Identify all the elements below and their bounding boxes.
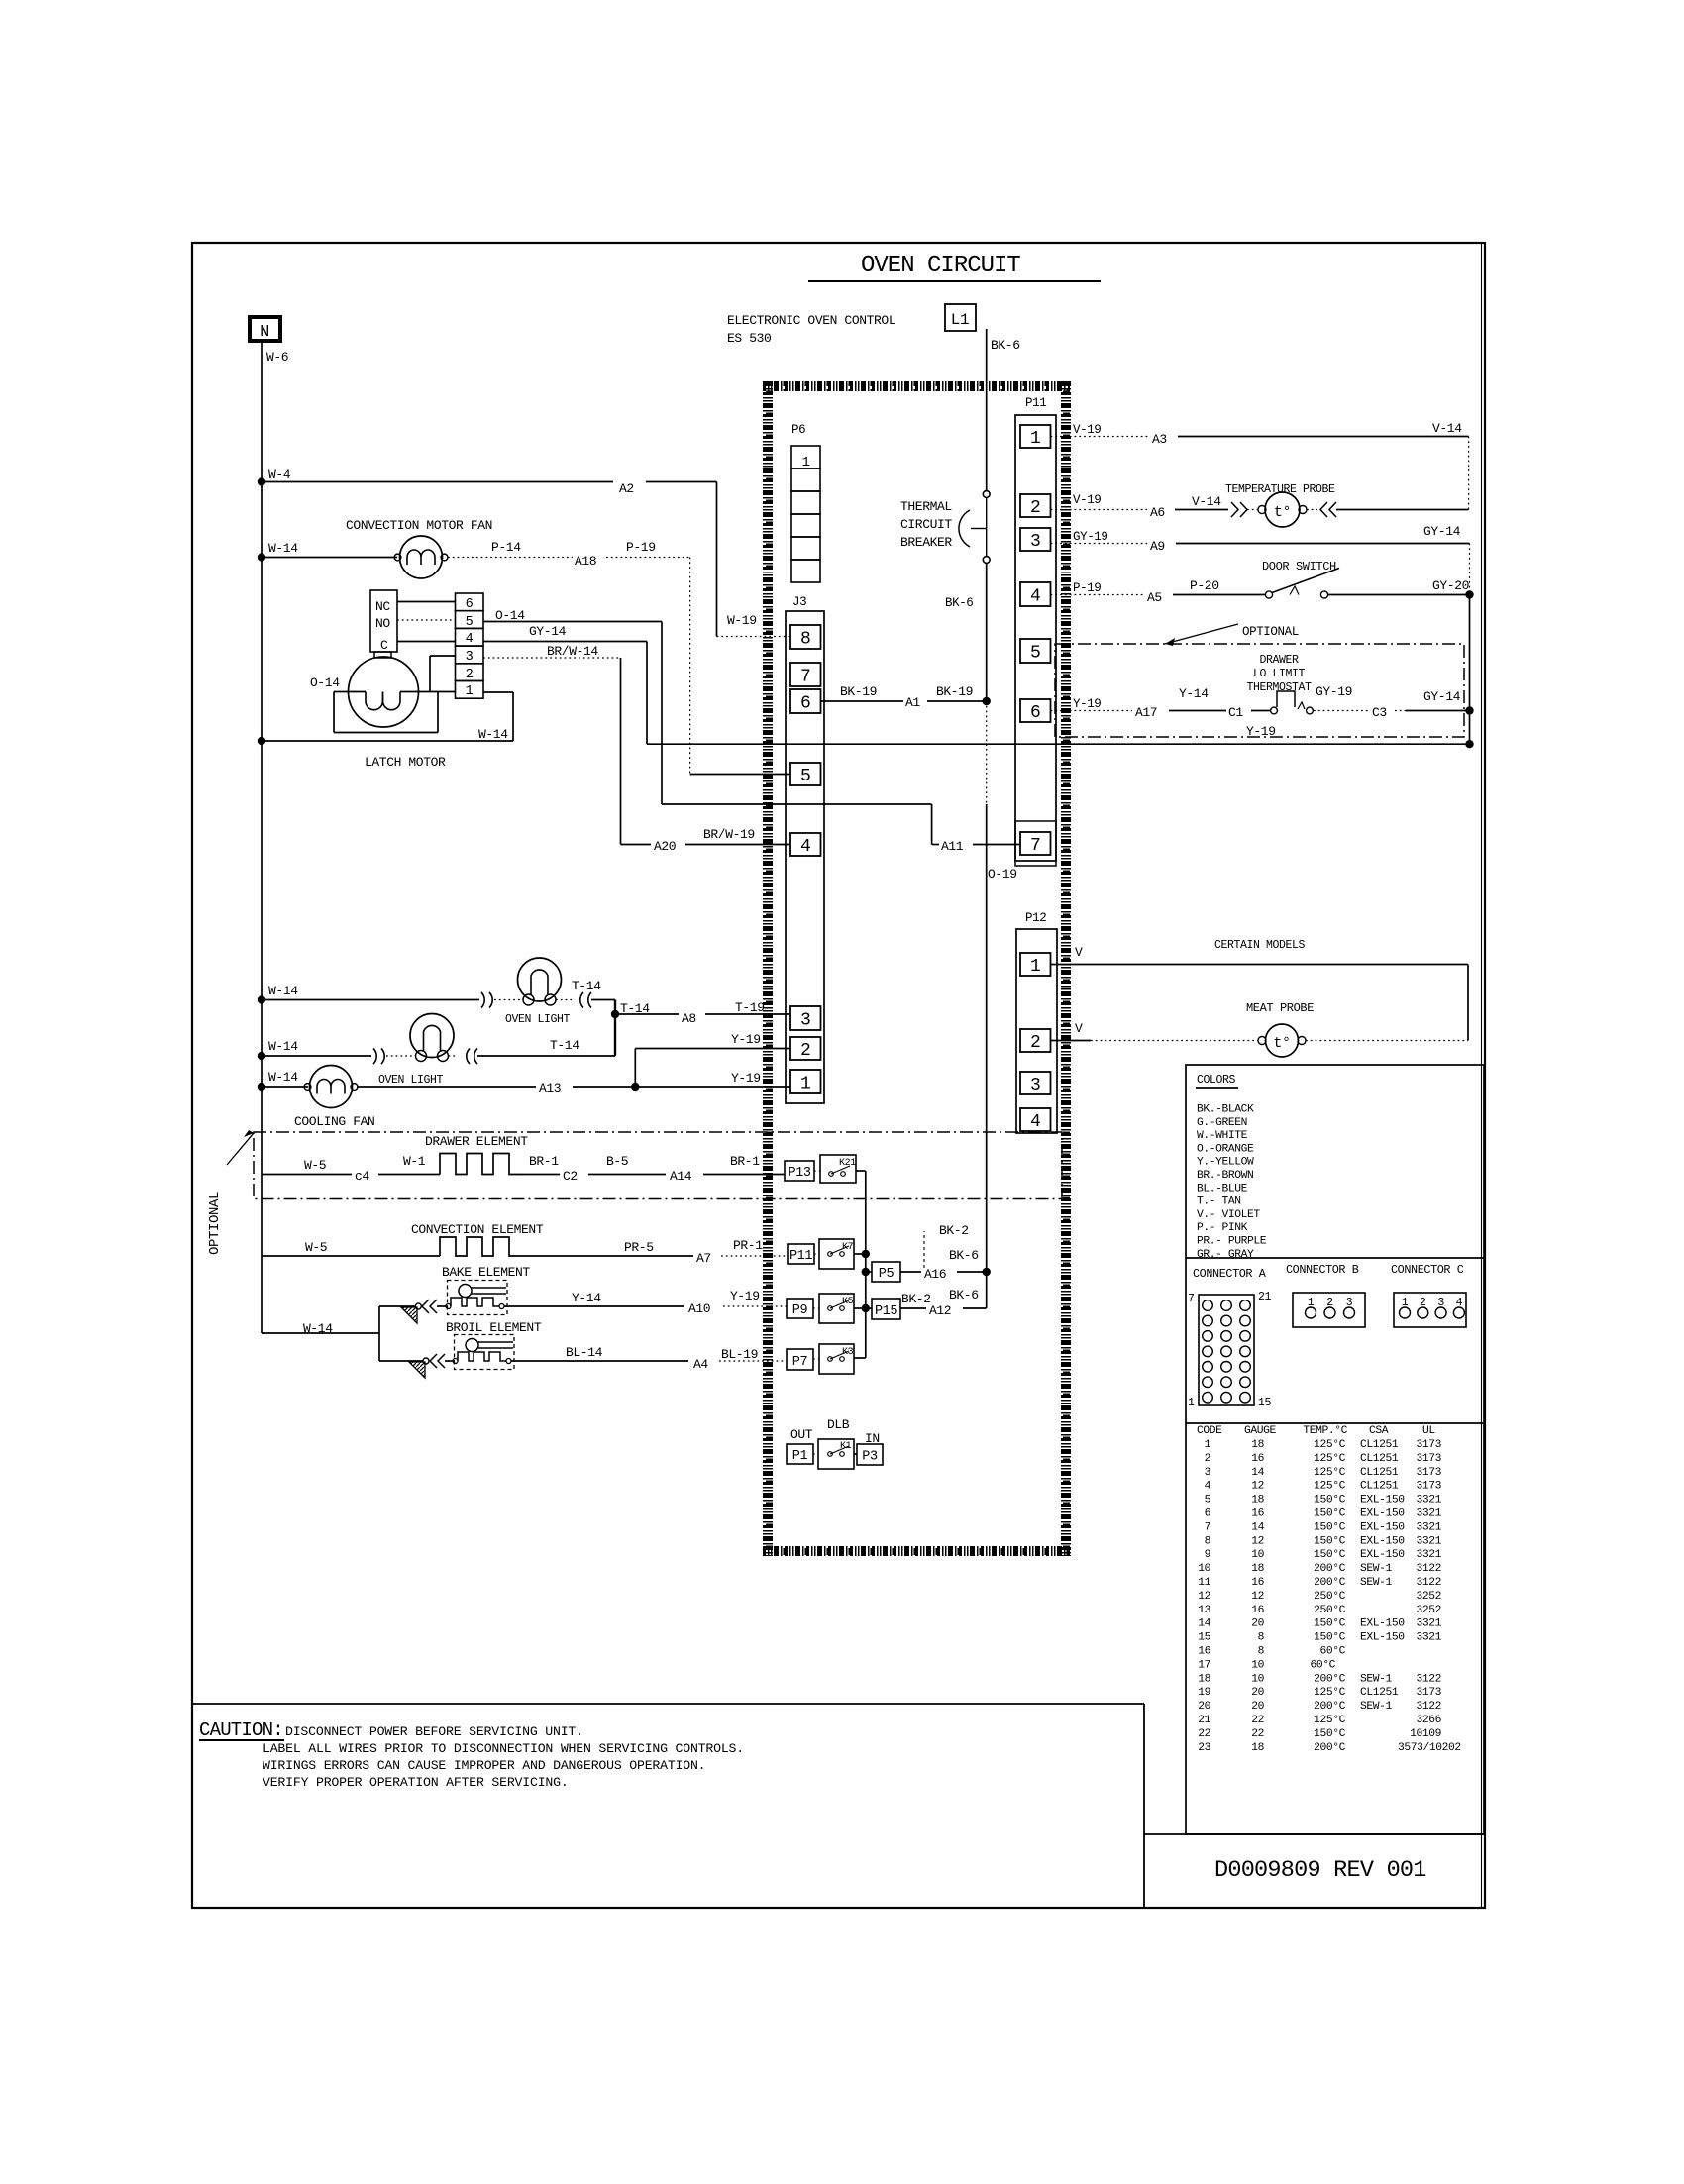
wire NO to cell 5 dotted — [397, 619, 456, 621]
svg-text:DRAWER: DRAWER — [1259, 654, 1299, 667]
svg-text:Y-14: Y-14 — [1179, 686, 1209, 701]
P11 pin 1 — [1020, 425, 1051, 448]
P12 pin 2 — [1020, 1029, 1051, 1052]
svg-text:12: 12 — [1251, 1535, 1264, 1547]
J3 pin 8 — [790, 625, 821, 649]
svg-text:10: 10 — [1198, 1563, 1210, 1575]
svg-text:PR-1: PR-1 — [733, 1238, 763, 1253]
svg-text:T.- TAN: T.- TAN — [1197, 1196, 1241, 1208]
wire NC to cell 6 — [397, 601, 456, 603]
door switch — [1265, 591, 1272, 598]
svg-text:3: 3 — [800, 1010, 810, 1030]
svg-text:7: 7 — [1205, 1521, 1210, 1533]
oven control board hatched border right — [1061, 381, 1071, 1556]
svg-text:CODE: CODE — [1197, 1425, 1222, 1437]
svg-text:Y.-YELLOW: Y.-YELLOW — [1197, 1157, 1254, 1169]
latch motor inner winding — [366, 692, 400, 710]
P11 pin 4 — [1020, 582, 1051, 606]
svg-text:TEMP.°C: TEMP.°C — [1303, 1425, 1347, 1437]
wire BR/W-14 dotted from cell 3 — [483, 657, 621, 659]
svg-text:K3: K3 — [842, 1347, 854, 1358]
svg-text:BK-6: BK-6 — [945, 596, 973, 610]
oven control board hatched border bottom — [763, 1546, 1070, 1556]
svg-text:LO LIMIT: LO LIMIT — [1253, 668, 1306, 680]
svg-text:A11: A11 — [941, 839, 964, 854]
svg-text:6: 6 — [1205, 1508, 1211, 1520]
svg-text:3173: 3173 — [1416, 1687, 1441, 1699]
svg-text:SEW-1: SEW-1 — [1360, 1577, 1393, 1589]
svg-text:MEAT PROBE: MEAT PROBE — [1246, 1001, 1314, 1015]
svg-text:V-14: V-14 — [1192, 494, 1221, 509]
svg-text:c4: c4 — [355, 1169, 369, 1184]
svg-text:CONVECTION ELEMENT: CONVECTION ELEMENT — [411, 1222, 544, 1237]
svg-text:EXL-150: EXL-150 — [1360, 1618, 1405, 1630]
svg-text:C3: C3 — [1372, 705, 1387, 720]
relay P1 box — [787, 1444, 813, 1464]
connector J3 outer box — [786, 611, 824, 1103]
svg-text:CL1251: CL1251 — [1360, 1481, 1399, 1493]
node N (neutral) box — [250, 317, 280, 341]
svg-text:WIRINGS ERRORS CAN CAUSE IMPRO: WIRINGS ERRORS CAN CAUSE IMPROPER AND DA… — [263, 1758, 705, 1773]
svg-text:EXL-150: EXL-150 — [1360, 1508, 1405, 1520]
svg-text:T-19: T-19 — [735, 1000, 765, 1015]
svg-text:O-14: O-14 — [495, 608, 525, 623]
wire K7 to bus — [854, 1253, 866, 1255]
svg-text:W-5: W-5 — [305, 1240, 327, 1255]
svg-text:BK-6: BK-6 — [991, 338, 1020, 353]
svg-text:W-14: W-14 — [268, 541, 298, 556]
wire to oven light 2 — [262, 1055, 371, 1057]
svg-text:V-19: V-19 — [1073, 493, 1101, 507]
P11 pin 7 inner frame — [1015, 821, 1056, 866]
svg-text:A16: A16 — [924, 1267, 946, 1282]
svg-text:8: 8 — [1258, 1632, 1265, 1644]
latch relay contact box NC NO C — [370, 590, 397, 652]
svg-text:18: 18 — [1251, 1495, 1264, 1507]
latch connector 6-pin column — [456, 593, 484, 611]
svg-text:V: V — [1075, 945, 1083, 960]
svg-text:P12: P12 — [1025, 911, 1046, 925]
svg-text:P13: P13 — [788, 1166, 810, 1181]
svg-text:150°C: 150°C — [1314, 1549, 1346, 1561]
svg-text:K5: K5 — [842, 1297, 854, 1307]
svg-text:K1: K1 — [840, 1441, 852, 1452]
svg-text:3: 3 — [1346, 1297, 1353, 1309]
wire K21 to bus — [856, 1170, 866, 1172]
wire BK-6 from L1 down to thermal breaker — [986, 329, 988, 491]
caution box — [192, 1703, 1144, 1705]
svg-text:A14: A14 — [670, 1169, 692, 1184]
meat probe — [1266, 1024, 1299, 1057]
svg-text:GY-20: GY-20 — [1432, 578, 1469, 593]
svg-text:3321: 3321 — [1416, 1495, 1441, 1507]
wire Y-14 A10 Y-19 to P9 — [504, 1305, 684, 1307]
svg-text:THERMAL: THERMAL — [900, 499, 952, 514]
sheet border frame — [192, 243, 1485, 1908]
wire left neutral rail — [261, 341, 263, 1333]
svg-text:TEMPERATURE PROBE: TEMPERATURE PROBE — [1225, 483, 1335, 496]
svg-text:22: 22 — [1251, 1715, 1264, 1726]
svg-text:OUT: OUT — [790, 1427, 813, 1442]
svg-text:P15: P15 — [875, 1304, 897, 1319]
svg-text:125°C: 125°C — [1314, 1481, 1346, 1493]
svg-text:W-5: W-5 — [304, 1158, 326, 1173]
svg-text:BR/W-14: BR/W-14 — [547, 644, 598, 659]
node L1 box — [945, 304, 976, 331]
connector P6 column — [791, 446, 820, 468]
svg-text:10109: 10109 — [1410, 1728, 1441, 1740]
svg-text:BR/W-19: BR/W-19 — [703, 827, 755, 842]
svg-text:7: 7 — [1030, 836, 1040, 856]
svg-text:3: 3 — [1437, 1297, 1444, 1309]
svg-text:9: 9 — [1205, 1549, 1210, 1561]
connector C pin row — [1394, 1293, 1466, 1327]
title underline — [808, 280, 1101, 282]
relay K5 box — [819, 1294, 854, 1323]
svg-text:OPTIONAL: OPTIONAL — [207, 1192, 223, 1255]
P12 pin 1 — [1020, 953, 1051, 976]
svg-text:6: 6 — [800, 693, 810, 713]
svg-text:3: 3 — [1205, 1467, 1211, 1479]
latch motor lead wires — [334, 691, 366, 693]
svg-text:3: 3 — [1030, 532, 1040, 552]
svg-text:11: 11 — [1198, 1577, 1210, 1589]
svg-text:G.-GREEN: G.-GREEN — [1197, 1117, 1247, 1129]
connector P11 outer box — [1015, 415, 1056, 861]
wire P-19 drop to J3 pin 5 — [689, 558, 691, 775]
svg-text:CONNECTOR A: CONNECTOR A — [1193, 1267, 1267, 1281]
bake chassis triangle — [401, 1307, 417, 1323]
svg-text:W.-WHITE: W.-WHITE — [1197, 1130, 1248, 1142]
svg-text:A8: A8 — [682, 1011, 696, 1026]
svg-text:3173: 3173 — [1416, 1439, 1441, 1451]
connector P12 outer box — [1016, 929, 1057, 1133]
svg-text:2: 2 — [1205, 1453, 1210, 1465]
connector B pin row — [1293, 1293, 1365, 1327]
svg-text:O.-ORANGE: O.-ORANGE — [1197, 1143, 1254, 1155]
svg-text:3252: 3252 — [1416, 1591, 1441, 1603]
svg-text:THERMOSTAT: THERMOSTAT — [1246, 681, 1312, 694]
svg-text:3321: 3321 — [1416, 1632, 1441, 1644]
wire K5 to bus — [854, 1307, 866, 1309]
svg-text:2: 2 — [1420, 1297, 1426, 1309]
svg-text:22: 22 — [1251, 1728, 1264, 1740]
svg-text:NC: NC — [375, 599, 390, 614]
wire from oven light 1 to junction — [556, 999, 572, 1001]
svg-text:3321: 3321 — [1416, 1549, 1441, 1561]
svg-text:3321: 3321 — [1416, 1508, 1441, 1520]
svg-text:Y-14: Y-14 — [572, 1291, 601, 1305]
svg-text:125°C: 125°C — [1314, 1467, 1346, 1479]
svg-text:3252: 3252 — [1416, 1605, 1441, 1616]
svg-text:150°C: 150°C — [1314, 1728, 1346, 1740]
sheet border right double line — [1481, 243, 1483, 1908]
svg-text:BK-6: BK-6 — [949, 1288, 979, 1302]
wire drop to A8 row — [614, 1000, 616, 1057]
svg-text:P6: P6 — [791, 423, 805, 437]
svg-text:Y-19: Y-19 — [1073, 697, 1101, 711]
svg-text:EXL-150: EXL-150 — [1360, 1495, 1405, 1507]
svg-text:60°C: 60°C — [1319, 1646, 1345, 1658]
J3 pin 4 — [790, 833, 821, 856]
svg-text:DOOR SWITCH: DOOR SWITCH — [1262, 560, 1336, 573]
svg-text:P5: P5 — [879, 1267, 895, 1282]
svg-text:UL: UL — [1422, 1425, 1435, 1437]
svg-text:Y-19: Y-19 — [731, 1071, 761, 1086]
svg-text:T-14: T-14 — [550, 1038, 579, 1053]
wire oven light 2 to junction drop — [449, 1055, 459, 1057]
svg-text:B-5: B-5 — [606, 1154, 628, 1169]
svg-text:A4: A4 — [693, 1357, 708, 1372]
relay P5 box — [862, 1268, 870, 1276]
svg-text:W-14: W-14 — [268, 1039, 298, 1054]
svg-text:GAUGE: GAUGE — [1244, 1425, 1277, 1437]
svg-text:3173: 3173 — [1416, 1481, 1441, 1493]
svg-text:P.- PINK: P.- PINK — [1197, 1222, 1248, 1234]
svg-text:PR.- PURPLE: PR.- PURPLE — [1197, 1236, 1267, 1248]
P11 pin 6 — [1020, 699, 1051, 722]
svg-text:t°: t° — [1274, 504, 1291, 521]
svg-text:1: 1 — [466, 684, 474, 699]
J3 pin 5 — [790, 763, 821, 785]
svg-text:60°C: 60°C — [1310, 1659, 1335, 1671]
svg-text:K7: K7 — [842, 1242, 854, 1253]
wire to oven light 1 — [262, 999, 479, 1001]
svg-text:CAUTION:: CAUTION: — [199, 1719, 283, 1741]
wire A12 BK-2 BK-6 — [900, 1307, 926, 1309]
relay P9 box — [787, 1299, 813, 1318]
svg-text:3122: 3122 — [1416, 1701, 1441, 1713]
convection element coil — [440, 1237, 521, 1256]
svg-text:125°C: 125°C — [1314, 1715, 1346, 1726]
relay K21 box — [820, 1155, 856, 1183]
svg-text:16: 16 — [1251, 1508, 1264, 1520]
wire Y-19 from J3 pin 2 — [635, 1048, 790, 1050]
svg-text:4: 4 — [1205, 1481, 1211, 1493]
svg-text:V-19: V-19 — [1073, 423, 1101, 437]
svg-text:2: 2 — [1030, 1033, 1040, 1053]
svg-text:EXL-150: EXL-150 — [1360, 1549, 1405, 1561]
bake element (sheathed) — [448, 1281, 508, 1315]
svg-text:GY-19: GY-19 — [1073, 530, 1108, 544]
svg-text:P-20: P-20 — [1190, 578, 1219, 593]
wire GY-20 to rail — [1328, 594, 1470, 596]
J3 pin 3 — [790, 1006, 821, 1030]
svg-text:P11: P11 — [789, 1249, 812, 1264]
J3 pin 7 — [790, 663, 821, 686]
svg-text:15: 15 — [1258, 1397, 1272, 1409]
svg-text:125°C: 125°C — [1314, 1687, 1346, 1699]
svg-text:BROIL ELEMENT: BROIL ELEMENT — [446, 1320, 542, 1335]
svg-text:ES 530: ES 530 — [727, 331, 771, 346]
svg-text:22: 22 — [1198, 1728, 1210, 1740]
svg-text:A1: A1 — [905, 695, 920, 710]
svg-text:12: 12 — [1251, 1591, 1264, 1603]
svg-text:1: 1 — [800, 1074, 810, 1093]
svg-text:BL-14: BL-14 — [566, 1345, 603, 1360]
svg-text:A9: A9 — [1150, 539, 1165, 554]
broil element (sheathed) — [455, 1335, 515, 1370]
svg-text:5: 5 — [1205, 1495, 1211, 1507]
svg-text:125°C: 125°C — [1314, 1439, 1346, 1451]
svg-text:W-6: W-6 — [266, 350, 288, 364]
svg-text:BR-1: BR-1 — [730, 1154, 760, 1169]
divider connectors section — [1186, 1257, 1484, 1259]
colors legend box — [1186, 1065, 1484, 1834]
svg-text:1: 1 — [1188, 1397, 1195, 1409]
wire C to cell 4 — [397, 641, 456, 643]
svg-text:3122: 3122 — [1416, 1563, 1441, 1575]
svg-text:VERIFY PROPER OPERATION AFTER: VERIFY PROPER OPERATION AFTER SERVICING. — [263, 1775, 569, 1790]
relay P11 box — [788, 1244, 814, 1264]
svg-text:150°C: 150°C — [1314, 1632, 1346, 1644]
svg-text:P11: P11 — [1025, 396, 1046, 410]
svg-text:L1: L1 — [951, 311, 969, 329]
svg-text:C: C — [380, 638, 388, 653]
svg-text:Y-19: Y-19 — [730, 1289, 760, 1303]
svg-text:A13: A13 — [539, 1081, 561, 1095]
wire BL-14 A4 BL-19 to P7 — [511, 1360, 688, 1362]
svg-text:A5: A5 — [1147, 590, 1162, 605]
wire to cooling fan — [262, 1086, 308, 1088]
svg-text:4: 4 — [466, 632, 474, 647]
wire cell 3 left to motor — [430, 655, 456, 657]
svg-text:150°C: 150°C — [1314, 1535, 1346, 1547]
svg-text:DRAWER ELEMENT: DRAWER ELEMENT — [425, 1134, 528, 1149]
svg-text:4: 4 — [1456, 1297, 1463, 1309]
svg-text:200°C: 200°C — [1314, 1673, 1346, 1685]
P11 pin 5 — [1020, 639, 1051, 663]
svg-text:OPTIONAL: OPTIONAL — [1242, 625, 1299, 639]
svg-text:BK-2: BK-2 — [939, 1223, 969, 1238]
svg-text:5: 5 — [466, 615, 474, 630]
wire BK-6 from breaker to BK-19 junction — [986, 564, 988, 702]
svg-text:A18: A18 — [575, 554, 596, 569]
svg-text:19: 19 — [1198, 1687, 1210, 1699]
svg-text:BK-6: BK-6 — [949, 1248, 979, 1263]
svg-text:7: 7 — [800, 667, 810, 686]
svg-text:CERTAIN MODELS: CERTAIN MODELS — [1214, 939, 1306, 952]
svg-text:4: 4 — [800, 837, 810, 857]
svg-text:V-14: V-14 — [1432, 421, 1462, 436]
svg-text:A20: A20 — [654, 839, 676, 854]
svg-text:T-14: T-14 — [572, 979, 601, 993]
wire GY-14 drop and long rail — [646, 642, 648, 745]
svg-text:SEW-1: SEW-1 — [1360, 1673, 1393, 1685]
svg-text:18: 18 — [1198, 1673, 1210, 1685]
svg-text:OVEN LIGHT: OVEN LIGHT — [505, 1013, 571, 1026]
P11 pin 2 — [1020, 494, 1051, 517]
P11 pin 3 — [1020, 528, 1051, 551]
svg-text:200°C: 200°C — [1314, 1742, 1346, 1754]
svg-text:N: N — [260, 323, 269, 342]
J3 pin 1 — [790, 1070, 821, 1093]
svg-text:8: 8 — [1258, 1646, 1265, 1658]
svg-text:3321: 3321 — [1416, 1535, 1441, 1547]
relay K7 box — [819, 1239, 854, 1269]
svg-text:13: 13 — [1198, 1605, 1210, 1616]
svg-text:C1: C1 — [1228, 705, 1243, 720]
svg-text:BK.-BLACK: BK.-BLACK — [1197, 1104, 1254, 1116]
svg-text:A3: A3 — [1152, 432, 1167, 447]
svg-text:200°C: 200°C — [1314, 1577, 1346, 1589]
svg-text:V: V — [1075, 1021, 1083, 1036]
svg-text:W-14: W-14 — [268, 1070, 298, 1085]
svg-text:LATCH MOTOR: LATCH MOTOR — [365, 755, 446, 770]
svg-text:BK-19: BK-19 — [936, 684, 973, 699]
broil chassis triangle — [409, 1362, 425, 1378]
svg-text:CONNECTOR C: CONNECTOR C — [1391, 1263, 1464, 1277]
temperature probe — [1265, 492, 1300, 527]
svg-text:5: 5 — [1030, 643, 1040, 663]
svg-text:21: 21 — [1258, 1291, 1272, 1303]
svg-text:A6: A6 — [1150, 505, 1165, 520]
svg-text:23: 23 — [1198, 1742, 1210, 1754]
svg-text:18: 18 — [1251, 1439, 1264, 1451]
svg-text:EXL-150: EXL-150 — [1360, 1521, 1405, 1533]
svg-text:3: 3 — [466, 650, 474, 665]
svg-text:OVEN LIGHT: OVEN LIGHT — [378, 1074, 444, 1087]
wire to convection fan — [262, 557, 397, 559]
svg-text:1: 1 — [1205, 1439, 1211, 1451]
svg-text:OVEN CIRCUIT: OVEN CIRCUIT — [861, 253, 1020, 279]
svg-text:P-19: P-19 — [626, 540, 656, 555]
junction dots on left rail — [258, 477, 265, 485]
svg-text:1: 1 — [801, 455, 809, 470]
svg-text:200°C: 200°C — [1314, 1563, 1346, 1575]
svg-text:1: 1 — [1030, 957, 1040, 977]
svg-text:2: 2 — [1030, 498, 1040, 518]
svg-text:P7: P7 — [792, 1355, 808, 1370]
svg-text:BK-2: BK-2 — [901, 1292, 931, 1306]
bake element arrow chevron — [422, 1300, 437, 1313]
svg-text:GY-14: GY-14 — [529, 624, 567, 639]
svg-text:3173: 3173 — [1416, 1467, 1441, 1479]
svg-text:3321: 3321 — [1416, 1521, 1441, 1533]
svg-text:GY-14: GY-14 — [1423, 689, 1461, 704]
svg-text:12: 12 — [1251, 1481, 1264, 1493]
svg-text:GY-14: GY-14 — [1423, 524, 1461, 539]
svg-text:2: 2 — [800, 1041, 810, 1061]
svg-text:BL.-BLUE: BL.-BLUE — [1197, 1183, 1248, 1195]
svg-text:150°C: 150°C — [1314, 1618, 1346, 1630]
svg-text:150°C: 150°C — [1314, 1508, 1346, 1520]
divider wire table section — [1186, 1422, 1484, 1424]
svg-text:EXL-150: EXL-150 — [1360, 1632, 1405, 1644]
svg-text:BAKE ELEMENT: BAKE ELEMENT — [442, 1265, 530, 1280]
svg-text:5: 5 — [800, 767, 810, 786]
convection motor fan — [400, 536, 443, 578]
svg-text:A17: A17 — [1135, 705, 1157, 720]
P11 pin 7 — [1020, 832, 1051, 855]
svg-text:A7: A7 — [696, 1251, 711, 1266]
dashed stub BK-2 — [923, 1231, 925, 1268]
svg-text:A10: A10 — [688, 1301, 710, 1316]
svg-text:2: 2 — [1326, 1297, 1333, 1309]
svg-text:D0009809 REV 001: D0009809 REV 001 — [1214, 1857, 1426, 1884]
svg-text:BK-19: BK-19 — [840, 684, 877, 699]
svg-text:BR.-BROWN: BR.-BROWN — [1197, 1170, 1253, 1182]
svg-text:CL1251: CL1251 — [1360, 1687, 1399, 1699]
latch motor — [349, 657, 419, 727]
oven control board hatched border left — [763, 381, 773, 1556]
relay K1 box — [818, 1439, 854, 1469]
svg-text:BREAKER: BREAKER — [900, 535, 952, 550]
wire K3 to bus — [854, 1357, 866, 1359]
relay K3 box — [819, 1344, 854, 1374]
svg-text:O-19: O-19 — [988, 867, 1017, 882]
svg-text:21: 21 — [1198, 1715, 1210, 1726]
